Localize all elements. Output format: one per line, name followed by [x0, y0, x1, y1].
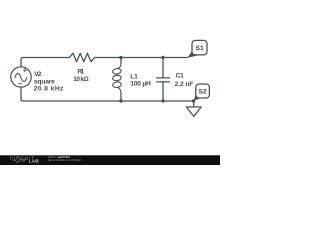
svg-text:10 kΩ: 10 kΩ [73, 76, 88, 83]
svg-text:2.2 nF: 2.2 nF [175, 81, 194, 88]
svg-text:L1: L1 [130, 73, 138, 80]
ground [186, 101, 201, 116]
wire from V2 bottom terminal down and right along bottom rail to ground junction [21, 87, 194, 101]
svg-text:LAB: LAB [29, 159, 40, 164]
svg-text:http://circuitlab.com/c95fzq6: http://circuitlab.com/c95fzq6 [48, 158, 82, 162]
svg-text:S1: S1 [196, 45, 204, 52]
junction C1 top [161, 56, 164, 59]
svg-text:20.8 kHz: 20.8 kHz [34, 85, 64, 92]
wire from R1 right lead to S1 anchor (through L1 and C1 top junctions) [95, 57, 188, 59]
svg-text:C1: C1 [176, 73, 185, 80]
junction L1 bottom [119, 99, 122, 102]
voltage source V2 (square wave source) [11, 67, 31, 87]
node flag S2 [194, 84, 210, 101]
junction L1 top [119, 56, 122, 59]
footer credit text [48, 155, 82, 162]
svg-text:S2: S2 [199, 89, 207, 96]
svg-text:R1: R1 [77, 69, 84, 76]
svg-text:square: square [34, 78, 55, 85]
junction C1 bottom [161, 99, 164, 102]
wire from V2 top terminal up and right to R1 left lead [21, 58, 69, 68]
capacitor C1 [157, 58, 170, 102]
junction ground / S2 anchor [192, 99, 195, 102]
svg-text:100 µH: 100 µH [130, 80, 151, 87]
node flag S1 [187, 40, 207, 57]
inductor L1 [112, 58, 121, 102]
resistor R1 [69, 53, 94, 62]
footer bar [0, 155, 220, 165]
svg-text:V2: V2 [34, 71, 42, 78]
footer CircuitLab logo [10, 155, 40, 163]
